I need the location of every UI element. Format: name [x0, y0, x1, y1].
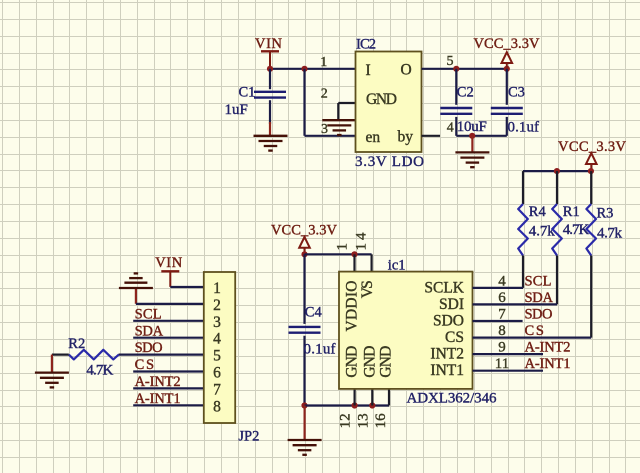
junction GND pin 13 [369, 402, 375, 408]
R3 top lead [590, 171, 592, 204]
junction VCC/C4 [301, 251, 307, 257]
GND pin 13 lead [371, 389, 373, 406]
svg-text:VS: VS [359, 280, 376, 298]
R3 value 4.7k [597, 226, 623, 242]
svg-text:R4: R4 [529, 204, 547, 220]
junction at VIN/C1 [267, 66, 273, 72]
svg-text:5: 5 [213, 348, 221, 365]
ic1 pin name VDDIO [343, 281, 360, 332]
C2 value 10uF [457, 119, 487, 135]
wire LDO output to VCC [422, 68, 507, 70]
VS top lead [371, 254, 373, 271]
power port VCC_3.3V (right) [558, 139, 627, 171]
wire resistor tops [523, 170, 591, 172]
net labels left [135, 306, 181, 407]
ground below C1 [254, 136, 288, 151]
R4 value 4.7k [529, 224, 556, 240]
IC2 pin name GND [366, 91, 397, 108]
JP2 designator [238, 428, 259, 444]
JP2 pin stub wires [133, 321, 204, 406]
svg-text:A-INT2: A-INT2 [525, 340, 571, 356]
svg-text:INT2: INT2 [430, 346, 464, 363]
C4 designator [305, 304, 323, 320]
svg-text:R3: R3 [597, 205, 614, 221]
R1 designator [563, 204, 580, 220]
svg-text:3.3V LDO: 3.3V LDO [355, 154, 424, 170]
R3 designator [597, 205, 614, 221]
C3 designator [508, 85, 525, 101]
svg-text:1: 1 [335, 243, 351, 251]
svg-text:4: 4 [447, 121, 454, 136]
capacitor C2 [440, 69, 472, 136]
svg-text:by: by [398, 129, 414, 146]
IC2 designator [356, 37, 376, 53]
wire R2 to JP2 pin 5 [119, 354, 204, 356]
svg-text:0.1uf: 0.1uf [304, 341, 336, 357]
C2 designator [457, 85, 474, 101]
svg-text:10uF: 10uF [457, 119, 487, 135]
ic1 right pin numbers [495, 273, 509, 372]
wire GND bus [305, 404, 390, 406]
capacitor C3 [491, 69, 523, 136]
svg-text:13: 13 [355, 413, 371, 428]
svg-text:SDO: SDO [433, 313, 464, 330]
ground below R2 [35, 355, 69, 388]
ground at LDO pin 2 [322, 120, 356, 135]
svg-text:O: O [401, 62, 412, 79]
wire C2 to C3 bottom [456, 135, 507, 137]
junction at VDDIO [351, 251, 357, 257]
junction above R3 [588, 168, 594, 174]
svg-text:VIN: VIN [255, 36, 283, 52]
ic1 designator [388, 257, 406, 273]
svg-text:I: I [366, 62, 371, 79]
GND pin 12 lead [354, 389, 356, 406]
R4 bottom lead [522, 256, 524, 288]
ic1 pin name VS [359, 280, 376, 298]
pin number 5 (LDO O) [447, 54, 454, 69]
svg-text:A-INT1: A-INT1 [525, 356, 571, 372]
svg-text:SCL: SCL [135, 306, 162, 322]
pin number 14 (VS) [354, 232, 370, 251]
C4 value 0.1uf [304, 341, 336, 357]
svg-text:SDO: SDO [135, 340, 163, 356]
svg-text:SDA: SDA [135, 323, 164, 339]
pin number 2 (LDO) [321, 86, 328, 101]
svg-text:R2: R2 [68, 336, 85, 352]
svg-text:SDO: SDO [525, 306, 553, 322]
svg-text:ADXL362/346: ADXL362/346 [407, 390, 498, 406]
C1 value 1uF [225, 102, 248, 118]
resistor R3 [586, 204, 596, 256]
svg-text:7: 7 [213, 381, 221, 398]
IC2 pin name O [401, 62, 412, 79]
wire VIN to JP2 pin 1 [170, 286, 204, 288]
svg-text:1: 1 [320, 55, 327, 70]
junction at C2 top [453, 66, 459, 72]
wire junction down to en [303, 69, 305, 136]
resistor R4 [518, 204, 528, 256]
pin number 4 (LDO by) [447, 121, 454, 136]
LDO pin 2 stub [338, 103, 355, 120]
svg-text:GND: GND [361, 346, 378, 378]
R1 bottom lead [556, 256, 558, 305]
svg-text:4.7K: 4.7K [86, 363, 113, 379]
R4 top lead [522, 171, 524, 204]
C3 value 0.1uf [508, 119, 540, 135]
svg-text:GND: GND [377, 346, 394, 378]
R2 designator [68, 336, 85, 352]
pin number 16 [373, 413, 389, 429]
ic1 pin name GND (12) [343, 346, 360, 378]
svg-text:SCL: SCL [525, 273, 552, 289]
IC2 pin name I [366, 62, 371, 79]
svg-text:12: 12 [338, 413, 354, 428]
ground below C2/C3 [455, 136, 489, 167]
svg-text:4: 4 [213, 331, 221, 348]
svg-text:0.1uf: 0.1uf [508, 119, 540, 135]
GND pin 16 lead [388, 389, 390, 406]
IC2 body [356, 52, 422, 153]
pin number 12 [338, 413, 354, 428]
power port VCC_3.3V (top) [474, 36, 541, 69]
LDO by pin stub [422, 135, 441, 137]
svg-text:4.7k: 4.7k [529, 224, 556, 240]
svg-text:JP2: JP2 [238, 428, 259, 444]
ic1 comment ADXL362/346 [407, 390, 498, 406]
svg-text:INT1: INT1 [430, 362, 464, 379]
junction C4/GND wire [301, 402, 307, 408]
svg-text:en: en [366, 129, 381, 146]
svg-text:C3: C3 [508, 85, 525, 101]
svg-text:C2: C2 [457, 85, 474, 101]
C1 designator [239, 85, 256, 101]
capacitor C4 [289, 254, 321, 405]
svg-text:VCC_3.3V: VCC_3.3V [558, 139, 627, 155]
wire VIN to LDO pin 1 [270, 68, 356, 70]
svg-text:IC2: IC2 [356, 37, 376, 53]
junction GND pin 12 [352, 402, 358, 408]
svg-text:C1: C1 [239, 85, 256, 101]
op-amp ic1 body [339, 272, 473, 389]
pin number 3 (LDO en) [321, 122, 328, 137]
wire to en pin 3 [305, 135, 356, 137]
svg-text:SDI: SDI [439, 296, 464, 313]
power port VIN (top) [255, 36, 283, 69]
JP2 pin numbers [213, 280, 221, 415]
svg-text:2: 2 [213, 297, 221, 314]
svg-text:4.7K: 4.7K [563, 222, 590, 238]
svg-text:6: 6 [213, 365, 221, 382]
junction at ground tap [469, 133, 475, 139]
svg-text:5: 5 [447, 54, 454, 69]
svg-text:3: 3 [321, 122, 328, 137]
svg-text:A-INT1: A-INT1 [135, 391, 181, 407]
svg-text:GND: GND [343, 346, 360, 378]
svg-text:1: 1 [213, 280, 221, 297]
svg-text:SCLK: SCLK [424, 279, 464, 296]
svg-text:A-INT2: A-INT2 [135, 374, 181, 390]
IC2 pin name en [366, 129, 381, 146]
svg-text:1uF: 1uF [225, 102, 248, 118]
wire ground to JP2 pin 2 [136, 303, 204, 305]
svg-text:8: 8 [213, 398, 221, 415]
pin number 1 (VDDIO) [335, 243, 351, 251]
svg-text:VDDIO: VDDIO [343, 281, 360, 332]
IC2 pin name by [398, 129, 414, 146]
svg-text:VCC_3.3V: VCC_3.3V [474, 36, 541, 52]
capacitor C1 [254, 69, 286, 136]
IC2 comment 3.3V LDO [355, 154, 424, 170]
ic1 pin name GND (16) [377, 346, 394, 378]
ground below C4 [288, 406, 322, 455]
R3 bottom lead [590, 256, 592, 338]
R4 designator [529, 204, 547, 220]
pin number 1 (LDO I) [320, 55, 327, 70]
svg-text:3: 3 [213, 314, 221, 331]
junction above R1 [554, 168, 560, 174]
R2 left lead [52, 354, 69, 356]
junction at C3 top [504, 66, 510, 72]
R1 top lead [556, 171, 558, 204]
svg-text:VIN: VIN [155, 255, 183, 271]
svg-text:GND: GND [366, 91, 397, 108]
resistor R2 [69, 350, 119, 360]
svg-text:SDA: SDA [525, 290, 554, 306]
svg-text:16: 16 [373, 413, 389, 429]
R2 value 4.7K [86, 363, 113, 379]
ic1 right pin names [424, 279, 464, 379]
R1 value 4.7K [563, 222, 590, 238]
svg-text:ic1: ic1 [388, 257, 406, 273]
svg-text:R1: R1 [563, 204, 580, 220]
ic1 right pin wires [473, 288, 592, 371]
VDDIO top lead [353, 254, 355, 271]
connector JP2 body [204, 272, 235, 423]
net labels right [525, 273, 571, 372]
power port VCC_3.3V (middle) [271, 222, 338, 254]
power port VIN (left) [155, 255, 183, 287]
svg-text:CS: CS [445, 329, 464, 346]
svg-text:2: 2 [321, 86, 328, 101]
ground at JP2 pin 2 (inverted) [119, 273, 153, 303]
junction at pin1 branch [301, 66, 307, 72]
pin number 13 [355, 413, 371, 428]
svg-text:C4: C4 [305, 304, 323, 320]
ic1 pin name GND (13) [361, 346, 378, 378]
wire VCC to VS pin [305, 253, 372, 255]
svg-text:4.7k: 4.7k [597, 226, 623, 242]
resistor R1 [552, 204, 562, 256]
